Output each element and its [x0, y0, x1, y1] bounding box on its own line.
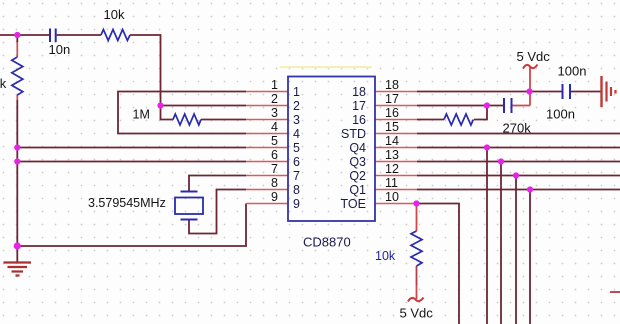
- svg-text:6: 6: [293, 155, 300, 169]
- node junction 1M: [157, 102, 163, 108]
- resistor R1 10k: [101, 30, 130, 41]
- svg-text:1: 1: [271, 78, 278, 92]
- svg-text:4: 4: [271, 120, 278, 134]
- wire pin7 to crystal top: [189, 176, 246, 192]
- wire pin6 row: [17, 161, 246, 163]
- svg-text:9: 9: [271, 190, 278, 204]
- node junction Q3: [498, 158, 504, 164]
- wire Q3 vertical drop: [500, 162, 502, 324]
- pin 12 right stub: [375, 175, 417, 177]
- pin 5 left stub: [246, 147, 288, 149]
- wire Q2 vertical drop: [515, 176, 517, 324]
- svg-text:STD: STD: [341, 127, 366, 141]
- svg-text:15: 15: [385, 120, 399, 134]
- svg-text:9: 9: [293, 197, 300, 211]
- wire input left at y=35: [0, 34, 49, 36]
- wire junction down to 1M row: [161, 106, 174, 120]
- wire pin17 row: [417, 105, 504, 107]
- pin 2 left stub: [246, 105, 288, 107]
- svg-text:8: 8: [271, 176, 278, 190]
- svg-text:5 Vdc: 5 Vdc: [400, 306, 434, 321]
- node junction pin6: [14, 158, 20, 164]
- pin 13 right stub: [375, 161, 417, 163]
- capacitor C1 10n: [50, 29, 56, 43]
- svg-text:5 Vdc: 5 Vdc: [517, 49, 551, 64]
- svg-text:18: 18: [352, 85, 366, 99]
- wire crystal bottom to pin8: [189, 190, 246, 234]
- svg-text:5: 5: [271, 134, 278, 148]
- node junction ground: [14, 242, 21, 249]
- pin 16 right stub: [375, 119, 417, 121]
- pin 6 left stub: [246, 161, 288, 163]
- resistor R4 270k: [444, 114, 473, 125]
- wire stub right edge: [610, 291, 620, 293]
- wire Q1 vertical drop: [529, 190, 531, 324]
- svg-text:6: 6: [271, 148, 278, 162]
- pin numbers U1 internal left: [293, 85, 300, 211]
- pin 18 right stub: [375, 91, 417, 93]
- highlight line above U1: [280, 66, 372, 68]
- wire pin14 row Q4: [417, 147, 620, 149]
- pin 11 right stub: [375, 189, 417, 191]
- node junction Q2: [513, 172, 519, 178]
- wire R2 top lead: [16, 42, 18, 57]
- svg-text:1M: 1M: [133, 108, 150, 122]
- node junction input: [14, 32, 20, 38]
- pin 17 right stub: [375, 105, 417, 107]
- pin 10 right stub: [375, 203, 417, 205]
- svg-text:Q4: Q4: [349, 141, 366, 155]
- crystal X1: [175, 192, 203, 220]
- svg-text:5: 5: [293, 141, 300, 155]
- wire pin11 row Q1: [417, 189, 620, 191]
- svg-text:2: 2: [271, 92, 278, 106]
- wire R2 bottom lead: [16, 95, 18, 100]
- svg-text:CD8870: CD8870: [303, 235, 351, 250]
- svg-text:2: 2: [293, 99, 300, 113]
- node junction Q4: [484, 144, 490, 150]
- wire 1M to pin3: [201, 119, 246, 121]
- wire cap C2 to ground: [571, 91, 601, 93]
- resistor R5 10k: [411, 231, 422, 266]
- pin labels U1 internal right: [341, 85, 367, 211]
- wire left vertical below R2 to ground: [16, 100, 18, 246]
- wire pin1 to pin4 loop: [118, 92, 246, 134]
- pin numbers U1 external left: [271, 78, 278, 204]
- svg-text:1: 1: [293, 85, 300, 99]
- wire power stem top 5Vdc: [529, 67, 531, 106]
- svg-text:3: 3: [271, 106, 278, 120]
- node junction pin5: [14, 144, 20, 150]
- svg-text:17: 17: [385, 92, 399, 106]
- wire pin10 TOE to corner down: [417, 204, 459, 324]
- node junction TOE: [413, 200, 419, 206]
- svg-text:16: 16: [385, 106, 399, 120]
- svg-text:14: 14: [385, 134, 399, 148]
- capacitor C3 100n: [504, 98, 512, 113]
- wire pin10 junction to R5: [416, 204, 418, 232]
- svg-text:16: 16: [352, 113, 366, 127]
- pin 15 right stub: [375, 133, 417, 135]
- resistor R2 left vertical: [12, 57, 23, 95]
- wire left vertical top: [16, 35, 18, 42]
- pin 3 left stub: [246, 119, 288, 121]
- node junction pin17 cap: [484, 102, 490, 108]
- wire cap C3 to 5Vdc stem: [513, 105, 531, 107]
- svg-text:3.579545MHz: 3.579545MHz: [88, 196, 166, 210]
- svg-text:17: 17: [352, 99, 366, 113]
- node junction Q1: [527, 186, 533, 192]
- power 5 Vdc top: [523, 65, 538, 69]
- wire R1 to corner down to pin2 row: [130, 35, 161, 106]
- pin 4 left stub: [246, 133, 288, 135]
- svg-text:100n: 100n: [546, 107, 575, 122]
- svg-text:Q2: Q2: [349, 169, 366, 183]
- wire pin16 to R4: [417, 119, 444, 121]
- svg-text:Q3: Q3: [349, 155, 366, 169]
- svg-text:4: 4: [293, 127, 300, 141]
- wire bottom row to pin9: [17, 204, 246, 247]
- svg-text:7: 7: [271, 162, 278, 176]
- node junction pin18 power: [526, 88, 532, 94]
- svg-text:18: 18: [385, 78, 399, 92]
- pin 7 left stub: [246, 175, 288, 177]
- svg-text:8: 8: [293, 183, 300, 197]
- svg-text:10: 10: [385, 190, 399, 204]
- svg-text:3: 3: [293, 113, 300, 127]
- wire pin12 row Q2: [417, 175, 620, 177]
- svg-text:100n: 100n: [558, 64, 587, 79]
- pin 14 right stub: [375, 147, 417, 149]
- power 5 Vdc bottom: [408, 298, 424, 302]
- svg-text:13: 13: [385, 148, 399, 162]
- wire pin18 row: [417, 91, 562, 93]
- ground left: [4, 246, 32, 276]
- wire cap C1 to resistor R1: [57, 34, 101, 36]
- svg-text:1k: 1k: [0, 76, 7, 91]
- resistor R3 1M: [173, 114, 201, 125]
- wire pin2 row: [161, 105, 247, 107]
- pin numbers U1 external right: [385, 78, 399, 204]
- capacitor C2 100n: [563, 84, 571, 99]
- ground right: [602, 76, 616, 107]
- wire pin13 row Q3: [417, 161, 620, 163]
- svg-text:10n: 10n: [49, 42, 71, 57]
- svg-text:270k: 270k: [503, 121, 532, 136]
- wire Q4 vertical drop: [486, 148, 488, 324]
- IC U1 CD8870: [288, 77, 375, 222]
- wire R5 to 5Vdc bottom: [416, 266, 418, 285]
- svg-text:11: 11: [385, 176, 398, 190]
- pin 1 left stub: [246, 91, 288, 93]
- pin 8 left stub: [246, 189, 288, 191]
- wire pin5 row: [17, 147, 246, 149]
- wire pin15 row STD: [417, 133, 620, 135]
- svg-text:10k: 10k: [375, 249, 396, 263]
- svg-text:7: 7: [293, 169, 300, 183]
- svg-text:12: 12: [385, 162, 399, 176]
- svg-text:10k: 10k: [104, 7, 125, 22]
- pin 9 left stub: [246, 203, 288, 205]
- svg-text:TOE: TOE: [341, 197, 366, 211]
- wire power stem bottom: [416, 285, 418, 299]
- wire R4 to pin17 junction: [474, 106, 487, 120]
- svg-text:Q1: Q1: [349, 183, 366, 197]
